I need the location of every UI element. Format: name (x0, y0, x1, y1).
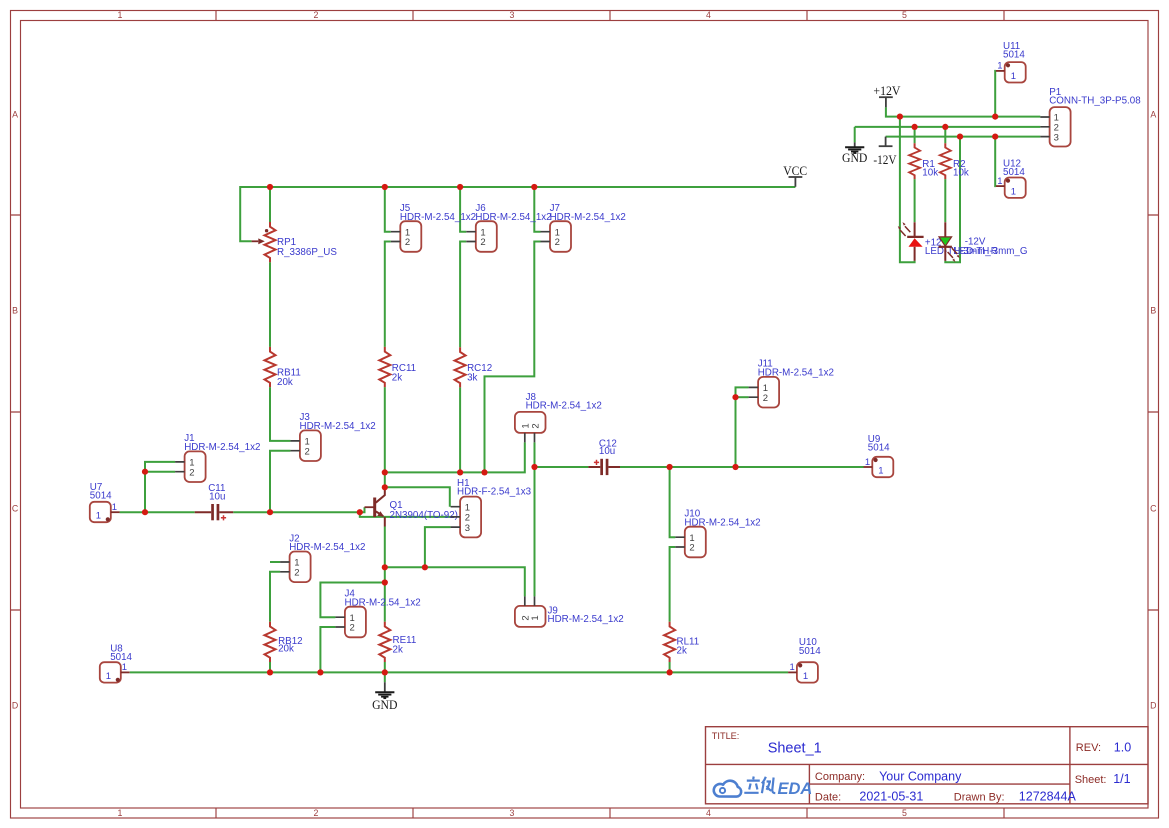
junction (531, 464, 537, 470)
resistor RB12 20k (265, 622, 303, 662)
svg-text:HDR-M-2.54_1x2: HDR-M-2.54_1x2 (684, 517, 760, 528)
connector J3 HDR-M-2.54_1x2 (290, 412, 375, 461)
svg-text:REV:: REV: (1076, 742, 1101, 754)
wire -12V to LED2 return (945, 137, 960, 263)
connector J1 HDR-M-2.54_1x2 (175, 433, 260, 482)
resistor RB11 20k (265, 347, 301, 388)
svg-text:A: A (1150, 110, 1156, 120)
svg-text:1272844A: 1272844A (1019, 790, 1077, 804)
svg-text:HDR-M-2.54_1x2: HDR-M-2.54_1x2 (548, 614, 624, 625)
junction (142, 509, 148, 515)
resistor R1 10k (909, 143, 938, 179)
wire R1 to LED1 (914, 179, 916, 222)
wire J8 pin2 to J9 pin1 (534, 442, 536, 596)
svg-text:Drawn By:: Drawn By: (954, 791, 1005, 803)
junction (531, 184, 537, 190)
wire output to J10 pin1 (670, 467, 676, 537)
svg-text:5014: 5014 (868, 443, 890, 454)
svg-text:Sheet_1: Sheet_1 (768, 740, 822, 756)
wire J5 pin2 to RC11 (385, 242, 391, 347)
connector J2 HDR-M-2.54_1x2 (280, 533, 365, 582)
junction (267, 509, 273, 515)
svg-text:-12V: -12V (965, 237, 986, 248)
svg-text:2: 2 (314, 808, 319, 818)
wire GND bus to R1 (914, 127, 916, 143)
junction (142, 469, 148, 475)
wire GND drop (854, 127, 856, 142)
junction (457, 469, 463, 475)
wire GND bus to R2 (944, 127, 946, 143)
wire J10 pin2 to RL11 (670, 547, 676, 622)
svg-text:2N3904(TO-92): 2N3904(TO-92) (390, 510, 458, 521)
svg-text:1: 1 (118, 10, 123, 20)
wire GND stem (384, 672, 386, 682)
svg-text:GND: GND (842, 150, 867, 165)
wire J11 pin1 tie (736, 387, 749, 397)
junction (382, 579, 388, 585)
resistor RC12 3k (455, 347, 493, 387)
test point U11 5014 (996, 41, 1026, 82)
junction (992, 114, 998, 120)
wire J1 pin1 tie (145, 462, 175, 512)
svg-text:10k: 10k (953, 167, 969, 178)
svg-text:2: 2 (350, 623, 355, 634)
svg-text:5014: 5014 (799, 646, 821, 657)
wire J1 pin2 tie (145, 471, 175, 473)
test point U12 5014 (996, 159, 1026, 198)
wire J6 pin2 to RC12 (460, 242, 466, 348)
wire J2 pin2 to RB12 (270, 572, 280, 622)
junction (897, 114, 903, 120)
LCEDA logo (714, 777, 813, 799)
wire VCC to RP1 (269, 187, 271, 222)
svg-text:10k: 10k (922, 167, 938, 178)
wire RB12 to GND rail (269, 662, 271, 673)
wire RC12 down (459, 387, 461, 472)
connector J4 HDR-M-2.54_1x2 (335, 589, 420, 638)
svg-text:1: 1 (106, 671, 111, 682)
wire J5 pin1 to VCC (385, 187, 391, 232)
svg-text:-12V: -12V (873, 153, 896, 167)
svg-text:Your Company: Your Company (879, 770, 962, 784)
svg-text:5014: 5014 (90, 491, 112, 502)
svg-text:+12V: +12V (873, 84, 900, 98)
test point U7 5014 (90, 482, 120, 522)
junction (382, 469, 388, 475)
svg-text:1: 1 (530, 615, 541, 620)
svg-text:1: 1 (865, 457, 870, 468)
test point U8 5014 (100, 643, 133, 682)
svg-text:GND: GND (372, 697, 397, 712)
svg-text:B: B (1150, 306, 1156, 316)
svg-text:HDR-M-2.54_1x2: HDR-M-2.54_1x2 (758, 368, 834, 379)
wire +12V to LED1 anode (900, 117, 915, 263)
capacitor C11 10u (195, 483, 234, 520)
junction (912, 124, 918, 130)
wire J4 pin2 to GND rail (320, 627, 335, 672)
svg-text:20k: 20k (277, 377, 293, 388)
svg-text:20k: 20k (278, 644, 294, 655)
svg-text:TITLE:: TITLE: (712, 731, 740, 741)
svg-text:1: 1 (878, 466, 883, 477)
wire J3 pin2 down to node (270, 451, 290, 513)
wire output to C12 (535, 466, 589, 468)
svg-text:2: 2 (689, 543, 694, 554)
wire emitter node to J9 pin2 (385, 567, 525, 596)
wire collector rail to J8 pin1 (385, 442, 525, 472)
wire emitter node to H1 pin3 (425, 527, 451, 567)
svg-text:2: 2 (305, 446, 310, 457)
svg-text:5014: 5014 (1003, 50, 1025, 61)
svg-text:1: 1 (790, 662, 795, 673)
power flag +12V (873, 84, 900, 108)
resistor RC11 2k (379, 347, 416, 387)
svg-text:1: 1 (997, 61, 1002, 72)
junction (422, 564, 428, 570)
svg-text:2021-05-31: 2021-05-31 (859, 790, 923, 804)
svg-text:3: 3 (1054, 132, 1059, 143)
LED LED1 red LED-TH-3mm_R (898, 222, 924, 261)
wire J7 pin1 to VCC (534, 187, 540, 232)
svg-text:5014: 5014 (110, 652, 132, 663)
junction (942, 124, 948, 130)
svg-text:C: C (12, 504, 19, 514)
svg-text:1: 1 (997, 176, 1002, 187)
test point U9 5014 (864, 434, 894, 477)
wire RL11 to GND rail (669, 662, 671, 672)
junction (457, 184, 463, 190)
svg-text:1/1: 1/1 (1113, 772, 1130, 786)
connector J11 HDR-M-2.54_1x2 (749, 359, 834, 408)
junction (317, 669, 323, 675)
wire J11 down to output (735, 397, 737, 467)
wire J2 pin1 (270, 561, 280, 563)
wire RP1 to RB11 (269, 262, 271, 347)
test point U10 5014 (788, 637, 821, 682)
wire -12V bus (886, 136, 1041, 138)
svg-text:HDR-M-2.54_1x2: HDR-M-2.54_1x2 (345, 597, 421, 608)
svg-text:2: 2 (189, 467, 194, 478)
wire R2 to LED2 (944, 179, 946, 222)
svg-text:5014: 5014 (1003, 167, 1025, 178)
svg-text:R_3386P_US: R_3386P_US (277, 247, 337, 258)
svg-text:C: C (1150, 504, 1157, 514)
junction (357, 509, 363, 515)
svg-text:2k: 2k (393, 645, 403, 656)
junction (732, 464, 738, 470)
svg-text:1: 1 (122, 662, 127, 673)
svg-text:1.0: 1.0 (1114, 741, 1131, 755)
svg-text:2: 2 (555, 237, 560, 248)
wire J6 pin1 to VCC (460, 187, 466, 232)
ground symbol GND (372, 682, 397, 712)
svg-text:2: 2 (763, 393, 768, 404)
capacitor C12 10u (588, 438, 620, 475)
transistor Q1 2N3904(TO-92) NPN (365, 487, 458, 526)
wire +12V bus (886, 107, 1040, 116)
ground symbol GND (842, 142, 867, 164)
svg-text:HDR-M-2.54_1x2: HDR-M-2.54_1x2 (300, 421, 376, 432)
svg-text:D: D (12, 701, 18, 711)
connector J5 HDR-M-2.54_1x2 (391, 203, 476, 252)
junction (382, 184, 388, 190)
wire GND bus (855, 126, 1041, 128)
connector J6 HDR-M-2.54_1x2 (466, 203, 551, 252)
wire C11 to Q1 base node (233, 511, 360, 513)
wire RB11 to J3 pin1 (270, 387, 290, 441)
junction (382, 564, 388, 570)
connector J9 HDR-M-2.54_1x2 (rotated 180) (515, 596, 624, 627)
svg-text:2: 2 (480, 237, 485, 248)
resistor RL11 2k (664, 622, 699, 662)
junction (732, 394, 738, 400)
svg-text:Sheet:: Sheet: (1075, 774, 1107, 786)
svg-text:1: 1 (803, 671, 808, 682)
svg-text:VCC: VCC (783, 163, 807, 178)
wire C12 to U9 (620, 466, 864, 468)
svg-text:Date:: Date: (815, 791, 841, 803)
wire collector to H1 pin1 (385, 487, 450, 506)
wire RC11 to collector node (384, 387, 386, 487)
svg-text:1: 1 (118, 808, 123, 818)
junction (481, 469, 487, 475)
svg-text:1: 1 (1011, 186, 1016, 197)
svg-text:HDR-F-2.54_1x3: HDR-F-2.54_1x3 (457, 487, 532, 498)
connector H1 HDR-F-2.54_1x3 (451, 478, 532, 538)
junction (267, 184, 273, 190)
svg-text:HDR-M-2.54_1x2: HDR-M-2.54_1x2 (550, 212, 626, 223)
wire J11 pin2 tie (736, 396, 749, 398)
svg-text:A: A (12, 110, 18, 120)
connector J10 HDR-M-2.54_1x2 (675, 509, 760, 558)
junction (957, 134, 963, 140)
svg-text:HDR-M-2.54_1x2: HDR-M-2.54_1x2 (400, 212, 476, 223)
svg-text:2: 2 (530, 423, 541, 428)
svg-text:B: B (12, 306, 18, 316)
wire GND rail (130, 671, 788, 673)
svg-text:HDR-M-2.54_1x2: HDR-M-2.54_1x2 (184, 442, 260, 453)
title block (706, 727, 1149, 804)
svg-text:3: 3 (510, 10, 515, 20)
junction (667, 464, 673, 470)
potentiometer RP1 R_3386P_US (252, 222, 338, 262)
svg-text:10u: 10u (599, 446, 615, 457)
connector J8 HDR-M-2.54_1x2 (rotated) (515, 392, 602, 443)
junction (992, 134, 998, 140)
wire U11 to +12V (994, 71, 997, 117)
svg-text:Company:: Company: (815, 771, 865, 783)
wire J4 pin1 link (320, 583, 384, 618)
svg-text:3: 3 (510, 808, 515, 818)
wire VCC rail (240, 187, 795, 241)
LED LED2 green LED-TH-3mm_G (939, 222, 960, 262)
connector P1 CONN-TH_3P-P5.08 (1040, 87, 1141, 147)
wire J7 pin2 down-jog (485, 242, 541, 473)
svg-text:3: 3 (465, 523, 470, 534)
svg-text:1: 1 (1011, 71, 1016, 82)
svg-text:2k: 2k (392, 373, 402, 384)
junction (667, 669, 673, 675)
svg-text:1: 1 (112, 502, 117, 513)
svg-text:3k: 3k (467, 373, 477, 384)
junction (267, 669, 273, 675)
svg-text:2: 2 (405, 237, 410, 248)
svg-text:2k: 2k (677, 646, 687, 657)
svg-text:10u: 10u (209, 492, 225, 503)
junction (382, 484, 388, 490)
svg-text:2: 2 (314, 10, 319, 20)
power flag VCC (783, 163, 807, 187)
wire U7 to C11 (120, 511, 195, 513)
svg-text:HDR-M-2.54_1x2: HDR-M-2.54_1x2 (475, 212, 551, 223)
svg-text:5: 5 (902, 808, 907, 818)
wire -12V to U12 (994, 137, 997, 187)
wire RE11 to GND rail (384, 662, 386, 672)
resistor R2 10k (940, 143, 969, 179)
svg-text:D: D (1150, 701, 1156, 711)
svg-text:4: 4 (706, 10, 711, 20)
svg-text:HDR-M-2.54_1x2: HDR-M-2.54_1x2 (526, 401, 602, 412)
svg-text:EDA: EDA (778, 780, 813, 798)
svg-text:2: 2 (294, 568, 299, 579)
svg-text:HDR-M-2.54_1x2: HDR-M-2.54_1x2 (289, 542, 365, 553)
wire emitter to RE11 (384, 527, 386, 622)
svg-text:CONN-TH_3P-P5.08: CONN-TH_3P-P5.08 (1049, 95, 1141, 106)
svg-text:4: 4 (706, 808, 711, 818)
power flag -12V (873, 137, 896, 167)
svg-text:1: 1 (96, 511, 101, 522)
resistor RE11 2k (379, 622, 416, 662)
wire base jog up (360, 507, 365, 512)
connector J7 HDR-M-2.54_1x2 (541, 203, 626, 252)
junction (382, 669, 388, 675)
wire base node to H1 pin2 (360, 512, 451, 517)
svg-text:5: 5 (902, 10, 907, 20)
